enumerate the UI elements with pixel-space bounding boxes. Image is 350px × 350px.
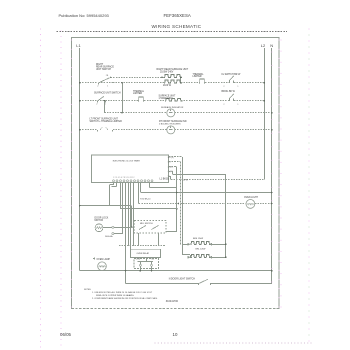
svg-text:1. UNLESS NOTED ALL WIRE IS 1: 1. UNLESS NOTED ALL WIRE IS 14 GAUGE 105… [92,291,153,294]
svg-text:OVEN LIGHT: OVEN LIGHT [244,197,259,199]
svg-text:NOTES:: NOTES: [84,289,92,291]
svg-text:SURFACE INDICATOR: SURFACE INDICATOR [161,106,184,109]
svg-text:FEF365XESA: FEF365XESA [164,13,191,18]
svg-text:BKE 12kW: BKE 12kW [193,238,203,240]
svg-text:WIRING SCHEMATIC: WIRING SCHEMATIC [152,24,202,29]
svg-text:OVEN RELAY: OVEN RELAY [137,252,150,255]
svg-text:LIMITER: LIMITER [193,76,202,78]
svg-text:MOTOR: MOTOR [95,220,104,222]
svg-text:TOD BK-10: TOD BK-10 [140,199,151,201]
svg-text:L2: L2 [261,43,266,48]
svg-text:1 500W 240V: 1 500W 240V [159,98,173,100]
svg-text:10: 10 [173,332,178,337]
svg-text:L2 W: L2 W [183,179,188,181]
svg-text:IG SWITCH BR W: IG SWITCH BR W [222,74,242,76]
svg-text:LIMITER: LIMITER [133,93,142,95]
svg-text:MDL SWITCH: MDL SWITCH [140,223,153,225]
svg-text:1 2 3 4 5 6 7 8 9 10 11 12: 1 2 3 4 5 6 7 8 9 10 11 12 [113,177,134,179]
svg-text:SRML-XLPE COPPER WIRE 14 GA/AW: SRML-XLPE COPPER WIRE 14 GA/AWG. [96,294,135,297]
svg-text:UNIT SWITCH: UNIT SWITCH [96,69,111,71]
svg-text:Publication No: 5995440293: Publication No: 5995440293 [59,13,110,18]
svg-text:2100W 240V: 2100W 240V [160,72,174,74]
svg-text:L1: L1 [76,43,81,48]
svg-text:ELECTRONIC CLOCK TIMER: ELECTRONIC CLOCK TIMER [113,161,141,163]
svg-text:SURFACE UNIT SWITCH: SURFACE UNIT SWITCH [94,92,121,95]
svg-text:SWITCH + THERMAL LIMITER: SWITCH + THERMAL LIMITER [90,120,123,123]
svg-text:N: N [270,43,273,48]
svg-text:2. COMPONENTS ARE SHOWN IN OF: 2. COMPONENTS ARE SHOWN IN OFF POSITION … [92,297,158,300]
svg-text:OVEN LAMP: OVEN LAMP [97,258,111,261]
svg-text:N DOOR LIGHT SWITCH: N DOOR LIGHT SWITCH [169,279,196,281]
svg-text:L1 BK(S): L1 BK(S) [160,178,170,180]
svg-text:BK(S): BK(S) [168,157,174,159]
svg-text:DLB-GA: DLB-GA [105,235,113,238]
svg-text:BROIL BK W: BROIL BK W [222,91,236,93]
svg-text:2100 W: 2100 W [163,85,172,87]
svg-text:316441700: 316441700 [166,300,179,303]
svg-text:BRL 12kW: BRL 12kW [196,248,206,250]
svg-text:06/05: 06/05 [60,332,72,337]
svg-text:2 BULBS 2 HOLDERS: 2 BULBS 2 HOLDERS [159,123,181,125]
